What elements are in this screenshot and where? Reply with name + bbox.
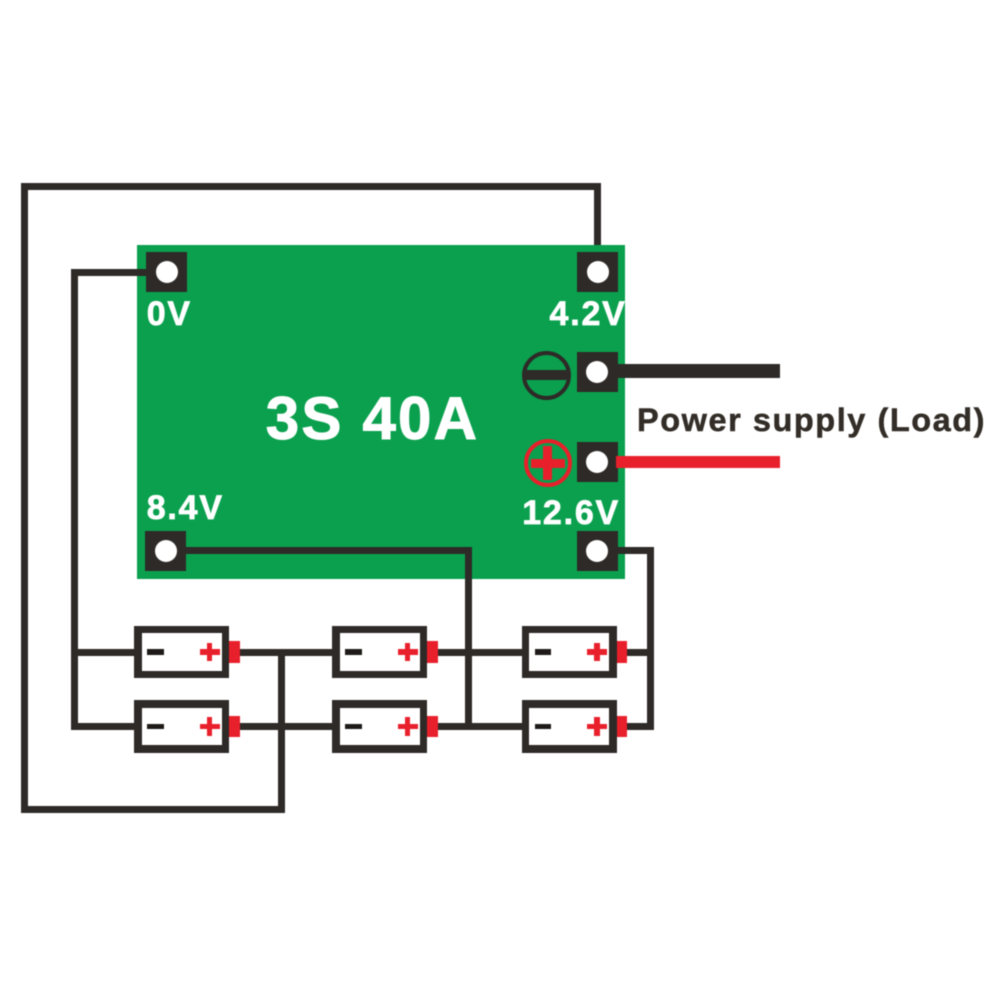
pad 0V: [146, 252, 187, 292]
pad hole 4.2V: [587, 261, 609, 283]
board title 3S 40A: [266, 389, 479, 449]
label Power supply (Load): [637, 404, 986, 437]
label 8.4V: [147, 491, 224, 525]
wire 4.2V riser to pad: [594, 183, 601, 258]
battery B1: [134, 626, 229, 679]
pad hole 8.4V: [155, 540, 177, 562]
wire 0V branch row2: [71, 723, 135, 730]
wire 12.6V vertical: [647, 547, 654, 730]
label 4.2V: [550, 297, 627, 331]
plus terminal symbol ring: [524, 439, 572, 487]
minus terminal bar: [526, 370, 567, 380]
pad charge-minus: [577, 352, 618, 392]
wire top horizontal (4.2V net): [21, 183, 600, 190]
wire row1 link B1+ to B2-: [238, 649, 333, 656]
pad hole 0V: [156, 261, 178, 283]
wire 12.6V pad horizontal: [616, 547, 653, 554]
plus terminal cross horizontal: [531, 459, 565, 468]
wire 4.2V junction vertical: [278, 649, 285, 813]
battery B6: [522, 700, 617, 753]
wire row2 link B4+ to B5-: [238, 723, 333, 730]
battery B3: [522, 626, 617, 679]
pad hole charge-plus: [586, 451, 608, 473]
wire 8.4V pad horizontal: [186, 547, 472, 554]
pad 8.4V: [145, 531, 186, 571]
wire 0V branch row1: [71, 649, 135, 656]
wire row2 link B5+ to B6-: [436, 723, 522, 730]
wire row1 link B3+ to 12.6V vertical: [625, 649, 653, 656]
wire left vertical (4.2V net): [21, 183, 28, 813]
plus terminal cross vertical: [543, 446, 552, 480]
pad hole 12.6V: [586, 540, 608, 562]
battery B5: [332, 700, 427, 753]
wire 8.4V junction vertical: [465, 547, 472, 730]
battery B4: [134, 700, 229, 753]
wire bottom horizontal (4.2V net): [21, 806, 285, 813]
black power wire: [616, 364, 780, 378]
wire row2 link B6+ to 12.6V vertical: [625, 723, 653, 730]
wire 0V vertical: [71, 269, 78, 730]
pad charge-plus: [577, 442, 618, 482]
minus terminal symbol ring: [522, 351, 571, 400]
BMS board: [137, 245, 625, 579]
pad 4.2V: [577, 252, 618, 292]
label 0V: [147, 297, 192, 331]
red power wire: [616, 456, 780, 468]
pad hole charge-minus: [586, 361, 608, 383]
battery B2: [332, 626, 427, 679]
wire 0V stub from pad: [71, 269, 151, 276]
pad 12.6V: [577, 531, 618, 571]
label 12.6V: [522, 496, 620, 530]
wire row1 link B2+ to B3-: [436, 649, 522, 656]
